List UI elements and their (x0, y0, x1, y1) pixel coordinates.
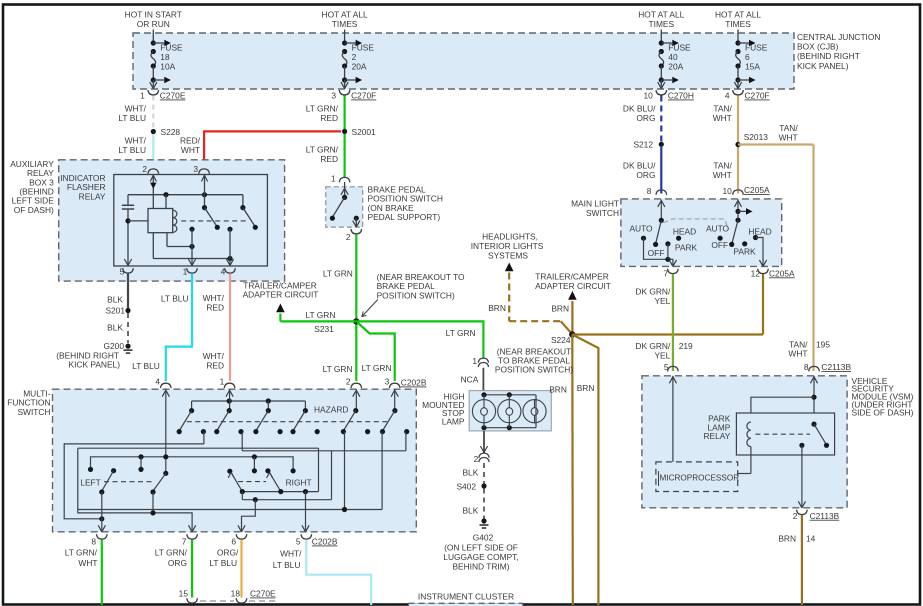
svg-text:TIMES: TIMES (332, 19, 358, 29)
svg-text:S231: S231 (314, 324, 334, 334)
svg-text:HEAD: HEAD (748, 226, 771, 236)
svg-text:C270H: C270H (668, 91, 694, 101)
svg-text:1: 1 (472, 356, 477, 366)
svg-text:C2113B: C2113B (821, 362, 851, 372)
svg-text:PARK: PARK (675, 242, 698, 252)
svg-text:TAN/: TAN/ (713, 104, 732, 114)
svg-text:S201: S201 (105, 306, 125, 316)
svg-text:OF DASH): OF DASH) (14, 205, 54, 215)
svg-text:LT BLU: LT BLU (209, 558, 237, 568)
svg-text:20A: 20A (352, 62, 367, 72)
svg-text:40: 40 (668, 52, 678, 62)
svg-text:WHT/: WHT/ (203, 351, 225, 361)
svg-text:PARK: PARK (733, 247, 756, 257)
svg-text:LT GRN: LT GRN (323, 269, 353, 279)
svg-text:10: 10 (643, 91, 653, 101)
svg-text:TIMES: TIMES (725, 19, 751, 29)
svg-text:DK GRN/: DK GRN/ (635, 287, 671, 297)
svg-text:FUSE: FUSE (352, 43, 375, 53)
svg-text:BRN: BRN (551, 304, 569, 314)
svg-text:3: 3 (193, 164, 198, 174)
svg-text:RELAY: RELAY (79, 191, 106, 201)
svg-text:RED/: RED/ (180, 136, 201, 146)
svg-text:18: 18 (160, 52, 170, 62)
svg-text:PEDAL SUPPORT): PEDAL SUPPORT) (368, 212, 441, 222)
svg-text:ORG: ORG (636, 113, 655, 123)
svg-text:15A: 15A (745, 62, 760, 72)
svg-text:C202B: C202B (312, 537, 338, 547)
svg-text:WHT: WHT (779, 133, 798, 143)
svg-text:1: 1 (183, 267, 188, 277)
svg-text:(BEHIND RIGHT: (BEHIND RIGHT (797, 51, 860, 61)
svg-text:MICROPROCESSOR: MICROPROCESSOR (660, 473, 740, 482)
svg-text:LT BLU: LT BLU (132, 361, 160, 371)
svg-text:LT GRN: LT GRN (323, 364, 353, 374)
svg-text:4: 4 (221, 267, 226, 277)
svg-text:LEFT: LEFT (80, 477, 100, 487)
svg-text:SYSTEMS: SYSTEMS (488, 251, 528, 261)
svg-text:2: 2 (474, 454, 479, 464)
svg-text:TAN/: TAN/ (779, 123, 798, 133)
svg-text:HOT IN START: HOT IN START (125, 10, 182, 20)
svg-text:WHT: WHT (788, 348, 807, 358)
svg-text:ORG: ORG (168, 558, 187, 568)
svg-text:WHT: WHT (713, 170, 732, 180)
svg-text:BRN: BRN (549, 384, 567, 394)
svg-text:LT BLU: LT BLU (118, 145, 146, 155)
svg-text:C270F: C270F (745, 91, 770, 101)
svg-text:LAMP: LAMP (442, 417, 465, 427)
svg-text:C270E: C270E (250, 589, 276, 599)
svg-text:S2013: S2013 (744, 132, 769, 142)
svg-text:YEL: YEL (654, 350, 670, 360)
svg-text:ORG/: ORG/ (217, 548, 239, 558)
svg-text:POSITION SWITCH): POSITION SWITCH) (495, 365, 573, 375)
svg-text:LT GRN/: LT GRN/ (65, 548, 98, 558)
svg-text:3: 3 (385, 376, 390, 386)
svg-text:18: 18 (231, 589, 241, 599)
svg-text:DK BLU/: DK BLU/ (623, 104, 656, 114)
svg-text:RED: RED (206, 361, 224, 371)
svg-text:KICK PANEL): KICK PANEL) (68, 360, 120, 370)
svg-text:2: 2 (142, 164, 147, 174)
svg-text:2: 2 (352, 52, 357, 62)
svg-text:HAZARD: HAZARD (314, 405, 348, 415)
svg-text:2: 2 (346, 232, 351, 242)
svg-text:2: 2 (346, 376, 351, 386)
svg-text:8: 8 (91, 537, 96, 547)
svg-text:10A: 10A (160, 62, 175, 72)
svg-text:10: 10 (722, 186, 732, 196)
svg-text:5: 5 (296, 537, 301, 547)
svg-text:FUSE: FUSE (160, 43, 183, 53)
svg-text:AUTO: AUTO (706, 224, 730, 234)
svg-text:TRAILER/CAMPER: TRAILER/CAMPER (535, 271, 609, 281)
svg-text:KICK PANEL): KICK PANEL) (797, 61, 849, 71)
svg-text:YEL: YEL (654, 296, 670, 306)
svg-text:C270E: C270E (160, 91, 186, 101)
svg-text:ORG: ORG (636, 170, 655, 180)
svg-text:LT BLU: LT BLU (161, 294, 189, 304)
svg-text:BOX (CJB): BOX (CJB) (797, 42, 839, 52)
svg-text:ADAPTER CIRCUIT: ADAPTER CIRCUIT (243, 290, 319, 300)
svg-text:S228: S228 (161, 127, 181, 137)
svg-text:DK GRN/: DK GRN/ (635, 341, 671, 351)
svg-text:OR RUN: OR RUN (137, 19, 170, 29)
svg-text:4: 4 (725, 91, 730, 101)
svg-text:RIGHT: RIGHT (286, 477, 312, 487)
svg-text:OFF: OFF (711, 240, 728, 250)
svg-text:OFF: OFF (648, 248, 665, 258)
svg-text:G402: G402 (473, 533, 494, 543)
svg-text:S212: S212 (633, 139, 653, 149)
svg-text:6: 6 (745, 52, 750, 62)
svg-text:BRN: BRN (488, 303, 506, 313)
svg-text:HOT AT ALL: HOT AT ALL (322, 10, 368, 20)
svg-text:S402: S402 (456, 482, 476, 492)
svg-text:WHT: WHT (181, 145, 200, 155)
svg-text:BEHIND TRIM): BEHIND TRIM) (452, 562, 509, 572)
svg-text:LT GRN/: LT GRN/ (306, 145, 339, 155)
svg-text:LT GRN: LT GRN (446, 328, 476, 338)
svg-text:15: 15 (179, 589, 189, 599)
svg-text:HOT AT ALL: HOT AT ALL (715, 10, 761, 20)
svg-text:C205A: C205A (744, 185, 770, 195)
svg-text:WHT: WHT (78, 558, 97, 568)
svg-text:HEADLIGHTS,: HEADLIGHTS, (482, 232, 538, 242)
svg-text:HEAD: HEAD (673, 226, 696, 236)
svg-text:LT BLU: LT BLU (273, 560, 301, 570)
svg-text:S224: S224 (551, 335, 571, 345)
svg-text:219: 219 (679, 341, 693, 351)
svg-text:8: 8 (804, 362, 809, 372)
svg-text:RELAY: RELAY (703, 431, 730, 441)
svg-text:SWITCH: SWITCH (586, 208, 619, 218)
svg-text:1: 1 (220, 376, 225, 386)
svg-text:SWITCH: SWITCH (17, 407, 50, 417)
svg-text:BLK: BLK (462, 506, 478, 516)
svg-text:20A: 20A (668, 62, 683, 72)
svg-text:WHT/: WHT/ (203, 293, 225, 303)
svg-text:8: 8 (647, 186, 652, 196)
svg-text:INTERIOR LIGHTS: INTERIOR LIGHTS (471, 241, 544, 251)
svg-text:7: 7 (182, 537, 187, 547)
svg-text:POSITION SWITCH): POSITION SWITCH) (377, 290, 455, 300)
svg-text:RED: RED (320, 154, 338, 164)
svg-text:WHT/: WHT/ (280, 549, 302, 559)
svg-text:LUGGAGE COMPT,: LUGGAGE COMPT, (443, 552, 518, 562)
svg-text:14: 14 (806, 534, 816, 544)
svg-text:1: 1 (140, 91, 145, 101)
svg-text:RED: RED (206, 303, 224, 313)
svg-text:6: 6 (231, 537, 236, 547)
svg-text:C2113B: C2113B (810, 511, 840, 521)
svg-text:WHT/: WHT/ (125, 104, 147, 114)
svg-text:SIDE OF DASH): SIDE OF DASH) (852, 407, 914, 417)
svg-text:WHT/: WHT/ (125, 136, 147, 146)
svg-text:LT GRN: LT GRN (362, 363, 392, 373)
svg-text:ADAPTER CIRCUIT: ADAPTER CIRCUIT (535, 281, 611, 291)
svg-text:FUSE: FUSE (745, 43, 768, 53)
svg-text:BRN: BRN (577, 383, 595, 393)
svg-text:LT GRN: LT GRN (305, 310, 335, 320)
svg-text:BLK: BLK (462, 468, 478, 478)
svg-text:195: 195 (816, 340, 830, 350)
svg-text:BRN: BRN (778, 534, 796, 544)
svg-text:CENTRAL JUNCTION: CENTRAL JUNCTION (797, 32, 880, 42)
svg-text:HOT AT ALL: HOT AT ALL (638, 10, 684, 20)
svg-text:4: 4 (155, 376, 160, 386)
svg-text:TIMES: TIMES (649, 19, 675, 29)
svg-text:1: 1 (331, 174, 336, 184)
svg-text:TAN/: TAN/ (713, 161, 732, 171)
svg-text:3: 3 (331, 91, 336, 101)
svg-text:BLK: BLK (107, 295, 123, 305)
svg-text:WHT: WHT (713, 113, 732, 123)
svg-text:INSTRUMENT CLUSTER: INSTRUMENT CLUSTER (418, 592, 514, 602)
svg-text:LT GRN/: LT GRN/ (306, 104, 339, 114)
svg-text:C270F: C270F (351, 91, 376, 101)
svg-text:(ON LEFT SIDE OF: (ON LEFT SIDE OF (444, 542, 518, 552)
svg-text:LT GRN/: LT GRN/ (155, 548, 188, 558)
svg-text:FUSE: FUSE (668, 43, 691, 53)
svg-text:12: 12 (751, 268, 761, 278)
svg-text:RED: RED (320, 113, 338, 123)
svg-text:C205A: C205A (769, 268, 795, 278)
svg-text:NCA: NCA (461, 375, 479, 385)
svg-text:C202B: C202B (401, 378, 427, 388)
svg-text:AUTO: AUTO (629, 224, 653, 234)
svg-text:S2001: S2001 (352, 127, 377, 137)
svg-text:LT BLU: LT BLU (118, 113, 146, 123)
svg-text:DK BLU/: DK BLU/ (623, 161, 656, 171)
svg-text:BLK: BLK (107, 323, 123, 333)
